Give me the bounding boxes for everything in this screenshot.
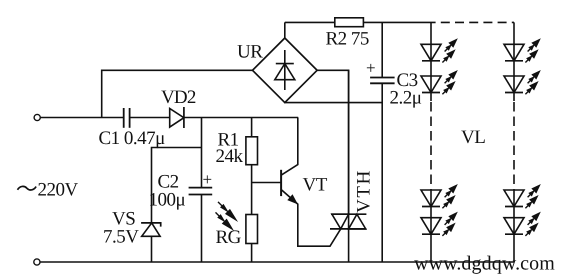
wire dashed continuation string 1 [430, 102, 432, 189]
svg-text:C1 0.47μ: C1 0.47μ [99, 128, 166, 149]
svg-text:www.dgdqw.com: www.dgdqw.com [414, 253, 555, 275]
wire branch up to bridge left [102, 70, 253, 117]
LED VL2d [504, 218, 524, 235]
resistor R2 [335, 18, 364, 27]
wire LED string 1 to bottom rail [430, 189, 432, 262]
wire C3 to bottom rail [381, 83, 383, 262]
wire top AC line [40, 117, 123, 119]
wire R2 to LED string 1 top [363, 21, 435, 23]
wire bottom rail [40, 261, 514, 263]
LED VL2b [504, 76, 524, 93]
wire R1 top lead [251, 118, 253, 137]
wire bridge top corner to top rail [284, 22, 286, 38]
LED VL1c [421, 190, 441, 207]
diode VD2 [170, 107, 184, 128]
triac VTH [330, 70, 366, 262]
resistor R1 [246, 137, 258, 165]
resistor RG [246, 215, 258, 244]
wire LED string 2 to bottom rail [513, 189, 515, 262]
LED string 1 top wire [430, 22, 432, 101]
svg-text:+: + [203, 170, 213, 189]
svg-text:VL: VL [461, 127, 485, 148]
LED VL2c [504, 190, 524, 207]
wire base of VT [252, 182, 282, 184]
wire C2 to bottom rail [201, 195, 203, 263]
photoresistor RG light arrows [214, 200, 239, 231]
wire RG to bottom rail [251, 244, 253, 263]
wire C1 to VD2 [130, 117, 170, 119]
svg-text:+: + [366, 59, 376, 78]
svg-text:220V: 220V [38, 180, 79, 201]
LED VL1b [421, 76, 441, 93]
wire R1 to RG [251, 165, 253, 215]
LED VL1d [421, 218, 441, 235]
AC input terminal top [34, 114, 40, 120]
svg-text:UR: UR [237, 42, 263, 63]
svg-text:24k: 24k [216, 146, 244, 167]
bridge inner diode [275, 50, 295, 90]
svg-text:2.2μ: 2.2μ [390, 88, 422, 109]
wire bridge right corner to triac [317, 70, 349, 214]
bridge rectifier UR diamond [253, 38, 318, 103]
capacitor C1 [124, 108, 130, 128]
label ~220V [18, 186, 37, 190]
svg-text:R2 75: R2 75 [326, 28, 369, 49]
svg-text:VTH: VTH [354, 169, 375, 213]
wire top rail to R2 [285, 21, 335, 23]
capacitor C3 [370, 78, 395, 84]
wire VS to bottom rail [151, 236, 153, 262]
svg-text:100μ: 100μ [149, 190, 186, 211]
svg-text:VT: VT [303, 175, 328, 196]
LED VL2a [504, 44, 524, 61]
wire VD2 cathode to collector corner [184, 117, 298, 119]
AC input terminal bottom [34, 259, 40, 265]
wire dashed continuation string 2 [513, 102, 515, 189]
wire VD2 node down to C2 [201, 118, 203, 188]
wire C3 branch from top rail [381, 22, 383, 77]
svg-text:7.5V: 7.5V [103, 226, 139, 247]
svg-text:VD2: VD2 [161, 87, 196, 108]
wire branch to VS [152, 148, 202, 223]
transistor VT [281, 118, 341, 247]
capacitor C2 [189, 188, 213, 195]
svg-text:RG: RG [216, 227, 242, 248]
zener diode VS [141, 223, 161, 236]
wire dashed rail to LED string 2 [436, 21, 514, 23]
LED VL1a [421, 44, 441, 61]
LED string 2 top wire [513, 22, 515, 101]
wire bridge bottom output [285, 102, 382, 104]
